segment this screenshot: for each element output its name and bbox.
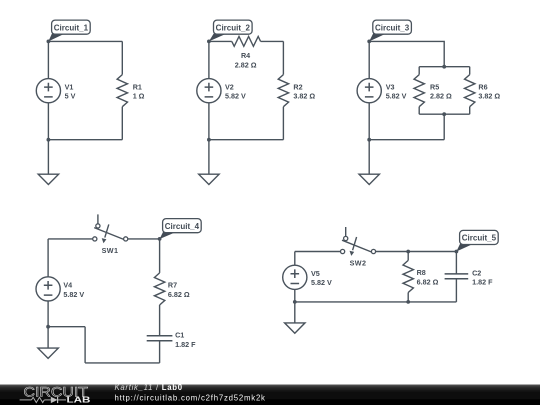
svg-text:2.82 Ω: 2.82 Ω	[235, 60, 257, 69]
svg-text:C1: C1	[175, 331, 184, 340]
svg-text:5.82 V: 5.82 V	[386, 92, 407, 101]
node top-left C3	[367, 40, 371, 44]
wire top rail C1	[48, 40, 122, 42]
node parallel bottom C3	[442, 112, 446, 116]
svg-text:5.82 V: 5.82 V	[225, 92, 246, 101]
wire bottom rail C3	[369, 139, 444, 141]
wire left lower C3	[368, 103, 370, 140]
label balloon Circuit_1	[48, 20, 90, 41]
wire left lower C2	[208, 103, 210, 140]
svg-text:R7: R7	[168, 281, 177, 290]
capacitor C1	[147, 331, 196, 349]
wire parallel bottom bar C3	[419, 113, 470, 115]
wire right lower C2	[282, 107, 284, 140]
voltage source V3	[357, 79, 407, 103]
wire C2 branch upper C5	[455, 252, 457, 274]
wire V5 stub bottom C5	[294, 289, 296, 302]
node bottom-left C5	[293, 300, 297, 304]
svg-text:5.82 V: 5.82 V	[311, 278, 332, 287]
voltage source V1	[36, 79, 75, 103]
CircuitLab logo squiggle wire3	[58, 399, 66, 401]
wire right upper C1	[121, 41, 123, 74]
voltage source V4	[36, 277, 84, 301]
wire top-right rail C2	[261, 40, 284, 42]
wire left lower C1	[47, 103, 49, 140]
wire top rail left C4	[48, 238, 93, 240]
svg-text:5 V: 5 V	[65, 92, 76, 101]
wire R8 branch upper C5	[407, 252, 409, 261]
node bottom-left C3	[367, 138, 371, 142]
svg-text:Kartik_11 / Lab0: Kartik_11 / Lab0	[115, 383, 183, 392]
svg-text:SW1: SW1	[102, 246, 119, 255]
resistor R5	[414, 75, 452, 107]
wire left leg upper C3	[418, 67, 420, 75]
wire right upper C2	[282, 41, 284, 74]
svg-text:Circuit_5: Circuit_5	[462, 234, 497, 243]
ground C5	[285, 323, 305, 333]
svg-text:R6: R6	[478, 82, 487, 91]
wire R7 branch upper C4	[159, 239, 161, 273]
wire jog horizontal C4	[48, 326, 85, 328]
node bottom-left C4	[46, 325, 50, 329]
wire bottom rail C4	[85, 362, 160, 364]
svg-text:6.82 Ω: 6.82 Ω	[417, 277, 439, 286]
CircuitLab logo diode	[51, 397, 58, 403]
wire left upper C1	[47, 41, 49, 78]
wire R8 branch lower C5	[407, 293, 409, 302]
wire bottom rail C5	[295, 301, 457, 303]
wire left leg lower C3	[418, 107, 420, 115]
node C2 top C5	[455, 250, 459, 254]
node parallel top C3	[442, 65, 446, 69]
switch SW2	[341, 227, 376, 267]
svg-text:Circuit_2: Circuit_2	[216, 23, 251, 32]
wire C2 branch lower C5	[455, 279, 457, 302]
resistor R6	[465, 75, 501, 107]
wire R7 to C1 C4	[159, 305, 161, 336]
resistor R8	[403, 260, 439, 292]
resistor R2	[278, 75, 315, 107]
svg-text:R5: R5	[430, 82, 439, 91]
wire left upper C4	[47, 239, 49, 277]
label balloon Circuit_3	[369, 20, 411, 41]
CircuitLab logo squiggle wire2	[44, 399, 51, 401]
svg-text:6.82 Ω: 6.82 Ω	[168, 290, 190, 299]
wire V5 stub top C5	[294, 252, 296, 266]
svg-text:C2: C2	[472, 268, 481, 277]
wire C1 bottom C4	[159, 341, 161, 363]
CircuitLab logo squiggle resistor	[32, 397, 45, 402]
svg-text:V1: V1	[65, 82, 74, 91]
wire left lower C4	[47, 301, 49, 327]
capacitor C2	[445, 268, 493, 286]
node R8 bottom C5	[406, 300, 410, 304]
CircuitLab logo squiggle wire	[20, 399, 32, 401]
wire ground stem C1	[47, 140, 49, 175]
svg-text:SW2: SW2	[350, 258, 367, 267]
svg-text:V4: V4	[63, 281, 72, 290]
wire ground stem C3	[368, 140, 370, 175]
node top-right C4	[158, 237, 162, 241]
wire ground stem C2	[208, 140, 210, 175]
wire right leg lower C3	[469, 107, 471, 115]
resistor R7	[154, 273, 189, 305]
svg-text:1.82 F: 1.82 F	[175, 340, 196, 349]
wire bottom stub C3	[443, 114, 445, 140]
svg-text:5.82 V: 5.82 V	[63, 290, 84, 299]
label balloon Circuit_4	[160, 219, 202, 239]
node top-left C2	[207, 40, 211, 44]
svg-text:1.82 F: 1.82 F	[472, 278, 493, 287]
wire bottom rail C1	[48, 139, 122, 141]
node bottom-left C2	[207, 138, 211, 142]
wire parallel top bar C3	[419, 66, 470, 68]
ground C2	[199, 174, 219, 184]
label balloon Circuit_5	[456, 230, 498, 251]
svg-text:R1: R1	[133, 82, 142, 91]
voltage source V2	[197, 79, 246, 103]
svg-text:V3: V3	[386, 82, 395, 91]
svg-text:3.82 Ω: 3.82 Ω	[293, 92, 315, 101]
svg-text:Circuit_4: Circuit_4	[165, 222, 200, 231]
svg-text:R4: R4	[241, 51, 250, 60]
svg-text:R8: R8	[417, 268, 426, 277]
svg-text:3.82 Ω: 3.82 Ω	[478, 92, 500, 101]
resistor R1	[117, 75, 145, 107]
ground C3	[359, 174, 379, 184]
wire ground stem C5	[294, 302, 296, 323]
switch SW1	[93, 214, 128, 255]
wire top rail C3	[369, 41, 444, 66]
node top-left C1	[47, 40, 51, 44]
node bottom-left C1	[47, 138, 51, 142]
wire top rail left C5	[295, 251, 341, 253]
svg-text:http://circuitlab.com/c2fh7zd5: http://circuitlab.com/c2fh7zd52mk2k	[115, 393, 266, 402]
wire top rail right C4	[128, 238, 160, 240]
ground C1	[38, 174, 58, 184]
wire ground stem C4	[47, 327, 49, 348]
node R8 top C5	[406, 250, 410, 254]
wire right lower C1	[121, 107, 123, 140]
svg-text:1 Ω: 1 Ω	[133, 92, 145, 101]
voltage source V5	[283, 265, 332, 289]
svg-text:2.82 Ω: 2.82 Ω	[430, 92, 452, 101]
svg-text:V2: V2	[225, 82, 234, 91]
wire top rail right C5	[376, 251, 457, 253]
svg-text:Circuit_1: Circuit_1	[54, 23, 89, 32]
wire top-left rail C2	[209, 40, 232, 42]
wire jog vertical C4	[84, 327, 86, 363]
wire right leg upper C3	[469, 67, 471, 75]
wire left upper C2	[208, 41, 210, 78]
wire left upper C3	[368, 41, 370, 78]
label balloon Circuit_2	[209, 20, 252, 41]
svg-text:Circuit_3: Circuit_3	[375, 23, 410, 32]
resistor R4	[232, 37, 261, 70]
svg-text:V5: V5	[311, 269, 320, 278]
svg-text:R2: R2	[293, 82, 302, 91]
wire bottom rail C2	[209, 139, 284, 141]
svg-text:LAB: LAB	[67, 396, 91, 405]
ground C4	[38, 348, 58, 358]
